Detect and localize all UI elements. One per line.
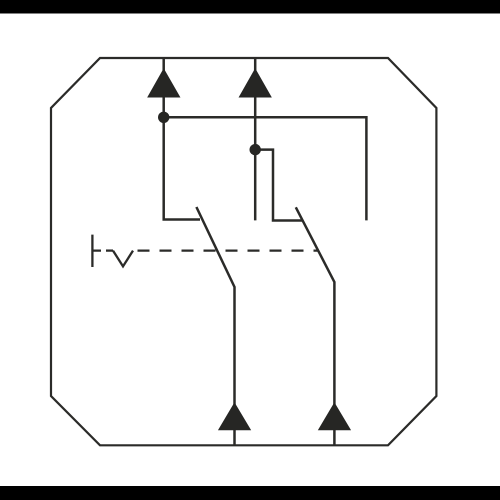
node B junction dot: [250, 144, 261, 155]
wire: top-left terminal down to left fixed contact: [164, 58, 200, 220]
mechanical linkage dashed line first dash: [106, 249, 113, 251]
terminal arrow bottom-left: [219, 403, 251, 430]
actuator V link: [113, 251, 133, 267]
enclosure outline: [51, 58, 436, 445]
wire: node A across to right-side vertical drop: [164, 117, 367, 220]
mechanical linkage dashed line: [138, 249, 318, 251]
wire: node B to right fixed contact: [255, 150, 302, 221]
terminal arrow bottom-right: [319, 403, 351, 430]
node A junction dot: [158, 112, 169, 123]
switch blade S2 and wire to bottom-right terminal: [296, 207, 335, 445]
terminal arrow top-right: [239, 69, 271, 97]
terminal arrow top-left: [148, 69, 180, 97]
wire: top-right terminal vertical: [254, 58, 257, 220]
manual actuator symbol: [92, 235, 101, 267]
switch blade S1 and wire to bottom-left terminal: [196, 207, 234, 445]
